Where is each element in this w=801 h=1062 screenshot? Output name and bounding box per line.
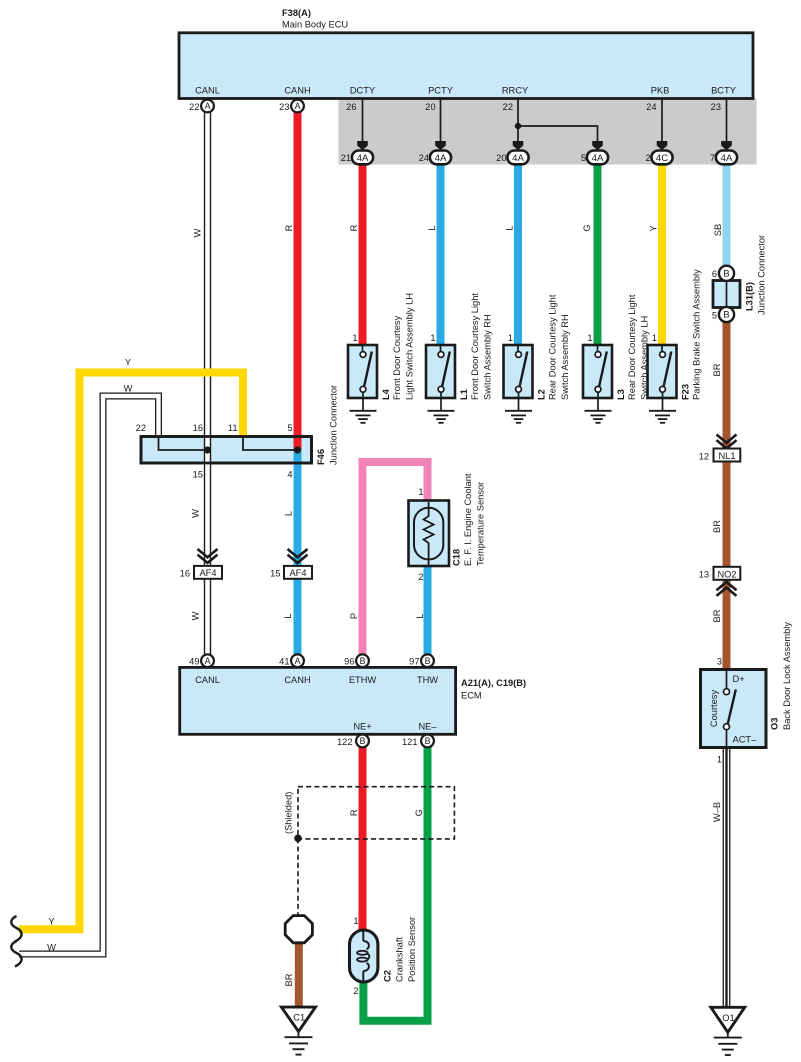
RRCY branch junction node <box>515 123 521 129</box>
svg-text:SB: SB <box>713 224 723 236</box>
BCTY pin 23 lead with arrow <box>726 99 728 144</box>
svg-text:2: 2 <box>645 153 650 163</box>
wire NE- G loop from ECM pin 121 to sensor C2 <box>363 741 427 1021</box>
svg-text:Front Door Courtesy Light: Front Door Courtesy Light <box>470 293 480 400</box>
PCTY pin 20 lead with arrow <box>440 99 442 144</box>
back door lock assembly O3 box <box>701 670 767 748</box>
wire CANH L from F46 pin 4 to ECM pin 41 <box>294 450 302 661</box>
svg-text:20: 20 <box>496 153 506 163</box>
svg-text:22: 22 <box>189 102 199 112</box>
svg-text:ACT–: ACT– <box>733 735 758 745</box>
svg-text:121: 121 <box>402 737 418 747</box>
svg-text:Position Sensor: Position Sensor <box>407 917 417 982</box>
svg-text:L: L <box>427 225 437 230</box>
svg-text:3: 3 <box>717 657 722 667</box>
svg-text:L: L <box>415 613 425 618</box>
svg-text:Temperature Sensor: Temperature Sensor <box>476 482 486 566</box>
svg-text:Back Door Lock Assembly: Back Door Lock Assembly <box>782 622 792 730</box>
svg-text:BCTY: BCTY <box>711 86 736 96</box>
connector oval 2 4C <box>651 151 672 165</box>
svg-text:L1: L1 <box>459 389 469 400</box>
break squiggle on W wire <box>11 941 21 967</box>
svg-text:Light Switch Assembly LH: Light Switch Assembly LH <box>405 293 415 400</box>
svg-text:15: 15 <box>193 470 203 480</box>
F46 junction node at pin 5/4 <box>294 446 301 453</box>
wire W loop from F46 pin 22 to left edge <box>19 396 159 954</box>
svg-text:L2: L2 <box>537 389 547 400</box>
ECM pin 122 connector B <box>356 735 369 748</box>
svg-text:Rear Door Courtesy Light: Rear Door Courtesy Light <box>627 294 637 400</box>
ground of L1 <box>428 410 455 412</box>
svg-text:F46: F46 <box>316 449 326 465</box>
shield junction node <box>294 835 302 843</box>
svg-text:Switch Assembly RH: Switch Assembly RH <box>483 314 493 400</box>
ground C1 bars <box>298 1032 300 1038</box>
svg-text:D+: D+ <box>733 674 745 684</box>
svg-text:AF4: AF4 <box>199 568 216 578</box>
junction connector F46 box <box>141 437 312 464</box>
svg-text:R: R <box>349 224 359 231</box>
svg-text:BR: BR <box>712 363 722 376</box>
switch L1 <box>426 345 455 398</box>
svg-text:CANL: CANL <box>195 86 220 96</box>
switch L4 <box>348 345 377 398</box>
svg-text:20: 20 <box>425 102 435 112</box>
svg-text:122: 122 <box>337 737 353 747</box>
svg-text:22: 22 <box>136 423 146 433</box>
svg-text:B: B <box>360 656 366 666</box>
RRCY branch lead with arrow <box>518 126 598 143</box>
svg-text:4A: 4A <box>512 153 524 164</box>
wire RRCY L to switch L2 <box>514 164 522 345</box>
svg-text:A: A <box>295 656 301 666</box>
svg-text:24: 24 <box>646 102 656 112</box>
connector oval 5 4A <box>587 151 608 165</box>
svg-text:C2: C2 <box>383 970 393 982</box>
svg-text:O3: O3 <box>770 718 780 730</box>
svg-text:41: 41 <box>279 657 289 667</box>
svg-text:W: W <box>190 611 200 620</box>
svg-text:BR: BR <box>284 973 294 986</box>
connector NL1 <box>714 449 741 462</box>
svg-text:16: 16 <box>193 423 203 433</box>
svg-text:L3: L3 <box>616 389 626 400</box>
svg-text:5: 5 <box>287 423 292 433</box>
svg-text:5: 5 <box>581 153 586 163</box>
svg-text:21: 21 <box>341 153 351 163</box>
RRCY pin 22 lead with arrow <box>517 99 519 144</box>
ground connector O1 triangle <box>711 1007 745 1032</box>
crankshaft position sensor C2 <box>350 930 378 982</box>
svg-text:4A: 4A <box>357 153 369 164</box>
F46 internal trace pin22 to pin16 <box>159 437 208 450</box>
svg-text:Y: Y <box>648 225 658 231</box>
svg-text:15: 15 <box>270 569 280 579</box>
svg-text:F38(A): F38(A) <box>282 8 311 18</box>
svg-text:5: 5 <box>712 311 717 321</box>
switch F23 <box>648 345 677 398</box>
svg-text:B: B <box>723 269 729 280</box>
svg-text:11: 11 <box>228 423 238 433</box>
svg-text:4C: 4C <box>656 153 668 164</box>
svg-text:1: 1 <box>352 333 357 343</box>
svg-text:(Shielded): (Shielded) <box>283 792 293 834</box>
wire PKB Y to switch F23 <box>658 164 666 345</box>
svg-text:A: A <box>295 101 301 111</box>
svg-text:NO2: NO2 <box>717 569 736 579</box>
connector NO2 <box>714 567 741 580</box>
svg-text:P: P <box>349 613 359 619</box>
svg-text:Y: Y <box>125 358 131 368</box>
svg-text:CANL: CANL <box>195 675 220 685</box>
svg-text:AF4: AF4 <box>289 568 306 578</box>
svg-text:7: 7 <box>710 153 715 163</box>
chevron arrow out of NO2 <box>717 582 737 590</box>
svg-text:CANH: CANH <box>284 86 310 96</box>
svg-text:RRCY: RRCY <box>502 86 528 96</box>
svg-text:A: A <box>205 101 211 111</box>
svg-text:B: B <box>723 310 729 321</box>
connector oval 24 4A <box>430 151 451 165</box>
svg-text:L: L <box>504 225 514 230</box>
ECM A21(A) C19(B) box <box>180 667 456 734</box>
svg-text:NL1: NL1 <box>718 451 735 461</box>
ECU pin 23 connector A <box>291 100 304 113</box>
svg-text:26: 26 <box>346 102 356 112</box>
svg-text:W: W <box>124 384 133 394</box>
svg-text:97: 97 <box>409 657 419 667</box>
svg-text:W–B: W–B <box>712 802 722 822</box>
PKB pin 24 lead with arrow <box>661 99 663 144</box>
svg-text:B: B <box>425 736 431 746</box>
junction connector L31(B) <box>713 281 740 308</box>
wire NE+ R from ECM pin 122 to sensor C2 <box>359 741 367 931</box>
svg-text:F23: F23 <box>681 384 691 400</box>
svg-text:2: 2 <box>418 572 423 582</box>
svg-text:1: 1 <box>587 333 592 343</box>
wire W-B from O3 pin 1 to ground O1 <box>723 748 731 1009</box>
svg-text:16: 16 <box>180 569 190 579</box>
L31(B) pin 6 connector B <box>719 266 734 281</box>
svg-text:49: 49 <box>189 657 199 667</box>
svg-text:24: 24 <box>419 153 429 163</box>
svg-text:Junction Connector: Junction Connector <box>329 385 339 465</box>
svg-text:PKB: PKB <box>651 86 670 96</box>
DCTY pin 26 lead with arrow <box>362 99 364 144</box>
break squiggle on Y wire <box>11 916 21 942</box>
switch L2 <box>504 345 533 398</box>
svg-text:96: 96 <box>344 657 354 667</box>
svg-text:Y: Y <box>48 917 54 927</box>
chevron arrow into AF4 pin 16 <box>198 549 218 557</box>
svg-text:23: 23 <box>711 102 721 112</box>
svg-text:W: W <box>192 228 202 237</box>
svg-text:Parking Brake Switch Assembly: Parking Brake Switch Assembly <box>692 269 702 400</box>
E.F.I. engine coolant temperature sensor C18 <box>409 501 450 567</box>
svg-text:L: L <box>283 613 293 618</box>
connector oval 21 4A <box>352 151 373 165</box>
L31(B) pin 5 connector B <box>719 307 734 322</box>
svg-text:G: G <box>582 224 592 231</box>
svg-text:A21(A), C19(B): A21(A), C19(B) <box>461 678 526 688</box>
svg-text:R: R <box>284 224 294 231</box>
ECM pin 49 connector A <box>201 654 214 667</box>
ground of F23 <box>649 410 676 412</box>
svg-text:Main Body ECU: Main Body ECU <box>282 20 348 30</box>
svg-text:CANH: CANH <box>284 675 310 685</box>
svg-text:1: 1 <box>430 333 435 343</box>
svg-text:Courtesy: Courtesy <box>709 690 719 728</box>
svg-text:NE–: NE– <box>418 722 437 732</box>
svg-text:Front Door Courtesy: Front Door Courtesy <box>392 315 402 400</box>
shield connector octagon <box>285 916 312 943</box>
svg-text:1: 1 <box>508 333 513 343</box>
svg-text:L31(B): L31(B) <box>745 282 755 311</box>
svg-text:23: 23 <box>279 102 289 112</box>
svg-text:Rear Door Courtesy Light: Rear Door Courtesy Light <box>548 294 558 400</box>
svg-text:2: 2 <box>353 986 358 996</box>
wire ETHW P loop from ECM pin 96 to coolant sensor C18 <box>363 462 428 661</box>
wire THW L from C18 pin 2 to ECM pin 97 <box>424 566 432 661</box>
chevron arrow into AF4 pin 15 <box>288 549 308 557</box>
svg-text:1: 1 <box>652 333 657 343</box>
svg-text:4A: 4A <box>592 153 604 164</box>
F46 box border redraw <box>141 437 312 464</box>
svg-text:O1: O1 <box>722 1013 734 1023</box>
svg-text:W: W <box>190 509 200 518</box>
wire Y loop from F46 pin 11 to left edge <box>19 373 243 930</box>
svg-text:C18: C18 <box>452 549 462 566</box>
ECU multiplex shading block <box>339 99 757 165</box>
ground O1 bars <box>727 1032 729 1037</box>
wire PCTY L to switch L1 <box>437 164 445 345</box>
svg-text:13: 13 <box>699 570 709 580</box>
F46 junction node at pin 16/15 <box>204 446 211 453</box>
svg-text:12: 12 <box>699 452 709 462</box>
svg-text:1: 1 <box>717 755 722 765</box>
svg-text:4: 4 <box>287 470 292 480</box>
svg-text:L: L <box>283 511 293 516</box>
svg-text:6: 6 <box>712 269 717 279</box>
wire DCTY R to switch L4 <box>359 164 367 345</box>
svg-text:C1: C1 <box>293 1013 305 1023</box>
svg-text:B: B <box>425 656 431 666</box>
connector oval 7 4A <box>716 151 737 165</box>
connector oval 20 4A <box>507 151 528 165</box>
svg-text:THW: THW <box>417 675 438 685</box>
svg-text:A: A <box>205 656 211 666</box>
svg-text:ECM: ECM <box>461 691 482 701</box>
svg-text:NE+: NE+ <box>353 722 371 732</box>
ground of L4 <box>350 410 377 412</box>
svg-text:G: G <box>414 809 424 816</box>
connector AF4 pin 15 <box>284 566 312 579</box>
F46 internal trace pin11 to pin5 <box>243 437 298 450</box>
switch L3 <box>583 345 612 398</box>
svg-text:4A: 4A <box>721 153 733 164</box>
svg-text:4A: 4A <box>435 153 447 164</box>
ground connector C1 triangle <box>281 1007 315 1031</box>
svg-text:1: 1 <box>418 487 423 497</box>
ground of L3 <box>585 410 612 412</box>
wire RRCY G to switch L3 <box>594 164 602 345</box>
svg-text:W: W <box>47 943 56 953</box>
ECU pin 22 connector A <box>201 100 214 113</box>
chevron arrow into NL1 <box>717 435 737 443</box>
svg-text:DCTY: DCTY <box>350 86 375 96</box>
svg-text:L4: L4 <box>381 388 391 400</box>
svg-text:Junction Connector: Junction Connector <box>757 235 767 315</box>
wire CANH R from ECU pin 23 to F46 pin 5 <box>294 99 302 451</box>
svg-text:Crankshaft: Crankshaft <box>395 937 405 982</box>
svg-text:BR: BR <box>712 609 722 622</box>
shielded cable dashed box <box>298 787 454 839</box>
wire BR from shield to ground C1 <box>295 941 303 1008</box>
svg-text:B: B <box>360 736 366 746</box>
ECM pin 96 connector B <box>356 654 369 667</box>
svg-text:Switch Assembly RH: Switch Assembly RH <box>560 314 570 400</box>
svg-text:BR: BR <box>712 520 722 533</box>
svg-text:PCTY: PCTY <box>428 86 453 96</box>
ECM pin 41 connector A <box>291 654 304 667</box>
svg-text:22: 22 <box>503 102 513 112</box>
svg-text:E. F. I. Engine Coolant: E. F. I. Engine Coolant <box>463 473 473 566</box>
connector AF4 pin 16 <box>194 566 222 579</box>
svg-text:1: 1 <box>353 916 358 926</box>
main body ECU F38(A) box <box>179 33 753 99</box>
shield drain dashed wire <box>297 838 299 915</box>
wire CANL W from ECU pin 22 to ECM pin 49 <box>204 99 211 662</box>
svg-text:R: R <box>349 809 359 816</box>
ECM pin 121 connector B <box>421 735 434 748</box>
ground of L2 <box>505 410 532 412</box>
wire BR from L31(B) pin 5 to back door lock O3 <box>723 322 731 671</box>
svg-text:ETHW: ETHW <box>349 675 377 685</box>
ECM pin 97 connector B <box>421 654 434 667</box>
wire BCTY SB to junction L31(B) <box>723 164 731 267</box>
